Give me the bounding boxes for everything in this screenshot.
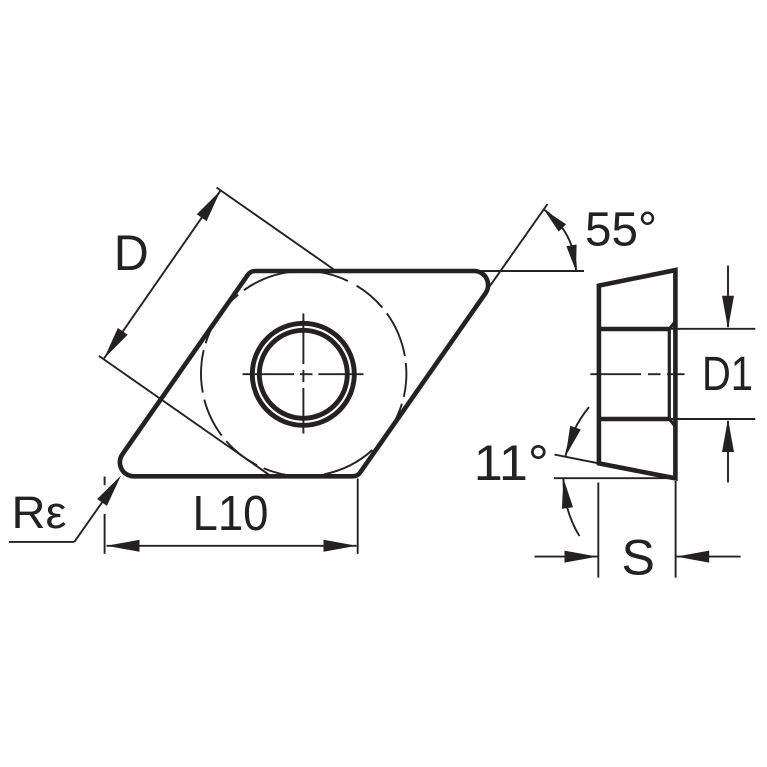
front view insert outline — [120, 271, 488, 476]
55 deg horizontal reference line — [473, 270, 584, 272]
dimension D arrowhead upper — [197, 191, 221, 222]
11 deg horizontal reference line — [554, 477, 676, 479]
dimension L10 arrowhead left — [107, 540, 140, 552]
11 deg bottom face extension line — [555, 455, 599, 464]
side view countersink chamfer lower — [669, 419, 675, 427]
dimension D1 extension line lower — [670, 418, 755, 420]
55 deg arc arrowhead lower — [566, 245, 576, 272]
dimension D extension line (lower) — [99, 356, 271, 476]
side view countersink chamfer upper — [669, 322, 675, 330]
side view outline — [599, 270, 676, 478]
svg-text:55°: 55° — [585, 204, 657, 257]
hole inner circle (bore) — [259, 330, 347, 418]
11 deg upper arc arrowhead — [566, 426, 581, 456]
svg-text:D: D — [114, 225, 149, 281]
dimension L10 line — [107, 545, 357, 547]
dimension L10 extension line left (broken) — [104, 477, 106, 486]
dimension D arrowhead lower — [104, 328, 128, 359]
side view hole lower line — [599, 417, 669, 422]
R-epsilon leader underline — [9, 541, 74, 543]
svg-text:Rε: Rε — [12, 487, 67, 538]
55 deg arc — [544, 210, 576, 271]
inscribed circle (dashed) — [378, 404, 402, 445]
side view hole upper line — [599, 327, 669, 332]
dimension D1 arrow lower — [727, 421, 729, 483]
dimension L10 arrowhead right — [324, 540, 357, 552]
dimension S line left — [535, 556, 598, 558]
dimension S extension line left — [597, 483, 599, 578]
dimension D line — [104, 191, 221, 359]
svg-text:11°: 11° — [474, 435, 549, 491]
55 deg edge extension line — [485, 204, 548, 293]
side view centerline — [590, 373, 641, 375]
hole outer circle (countersink rim) — [252, 323, 354, 425]
R-epsilon leader diagonal — [74, 498, 105, 542]
dimension S extension line right — [675, 481, 677, 578]
dimension D extension line (upper) — [217, 188, 337, 272]
dimension L10 extension line right — [357, 479, 359, 554]
dimension D1 extension line upper — [670, 328, 755, 330]
svg-text:D1: D1 — [702, 348, 753, 401]
11 deg lower arc — [563, 478, 579, 536]
hole horizontal centerline — [243, 373, 295, 375]
55 deg arc arrowhead upper — [544, 210, 566, 232]
svg-text:S: S — [622, 530, 655, 586]
dimension S line right — [676, 556, 740, 558]
11 deg lower arc arrowhead — [562, 478, 573, 509]
R-epsilon leader arrowhead — [97, 476, 121, 506]
dimension D1 arrow upper — [727, 266, 729, 328]
hole vertical centerline — [302, 314, 304, 365]
side view countersink vertical line — [668, 329, 671, 419]
svg-text:L10: L10 — [193, 487, 269, 541]
11 deg upper arc — [566, 407, 589, 456]
